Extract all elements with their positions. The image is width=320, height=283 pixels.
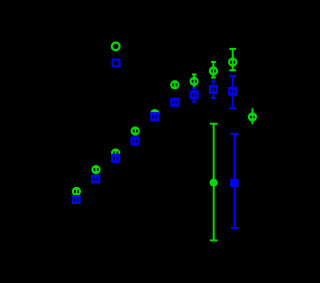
green data point G3 [111,148,120,157]
green data point G7 [189,77,198,86]
blue error bar B9 [229,75,236,110]
blue data point B4 [131,137,140,146]
green error bar G7 [192,74,196,88]
green data point G8 [209,66,218,75]
green data point G5 [150,109,159,118]
green data point G1 [72,187,81,196]
blue data point B5 [150,112,159,121]
green data point G10 [248,112,257,121]
blue error bar B7 [192,87,196,103]
green data point G2 [91,165,100,174]
blue data point B7 [190,90,199,99]
blue data point B1 [72,195,81,204]
filled blue marker BF [230,179,238,187]
green data point G6 [170,80,179,89]
blue data point B9 [228,87,237,96]
green error bar G8 [211,61,216,79]
long blue error bar BF [231,133,239,229]
blue data point B2 [91,175,100,184]
green error bar G10 [251,108,253,124]
legend green open circle [112,43,120,51]
legend blue open square [113,60,120,67]
blue error bar B8 [211,80,216,99]
blue data point B6 [170,98,179,107]
blue data point B3 [111,154,120,163]
long green error bar GF [210,123,218,242]
green data point G4 [131,126,140,135]
green data point G9 [228,57,237,66]
filled green marker GF [210,179,218,187]
green error bar G9 [229,48,236,71]
blue data point B8 [209,85,218,94]
